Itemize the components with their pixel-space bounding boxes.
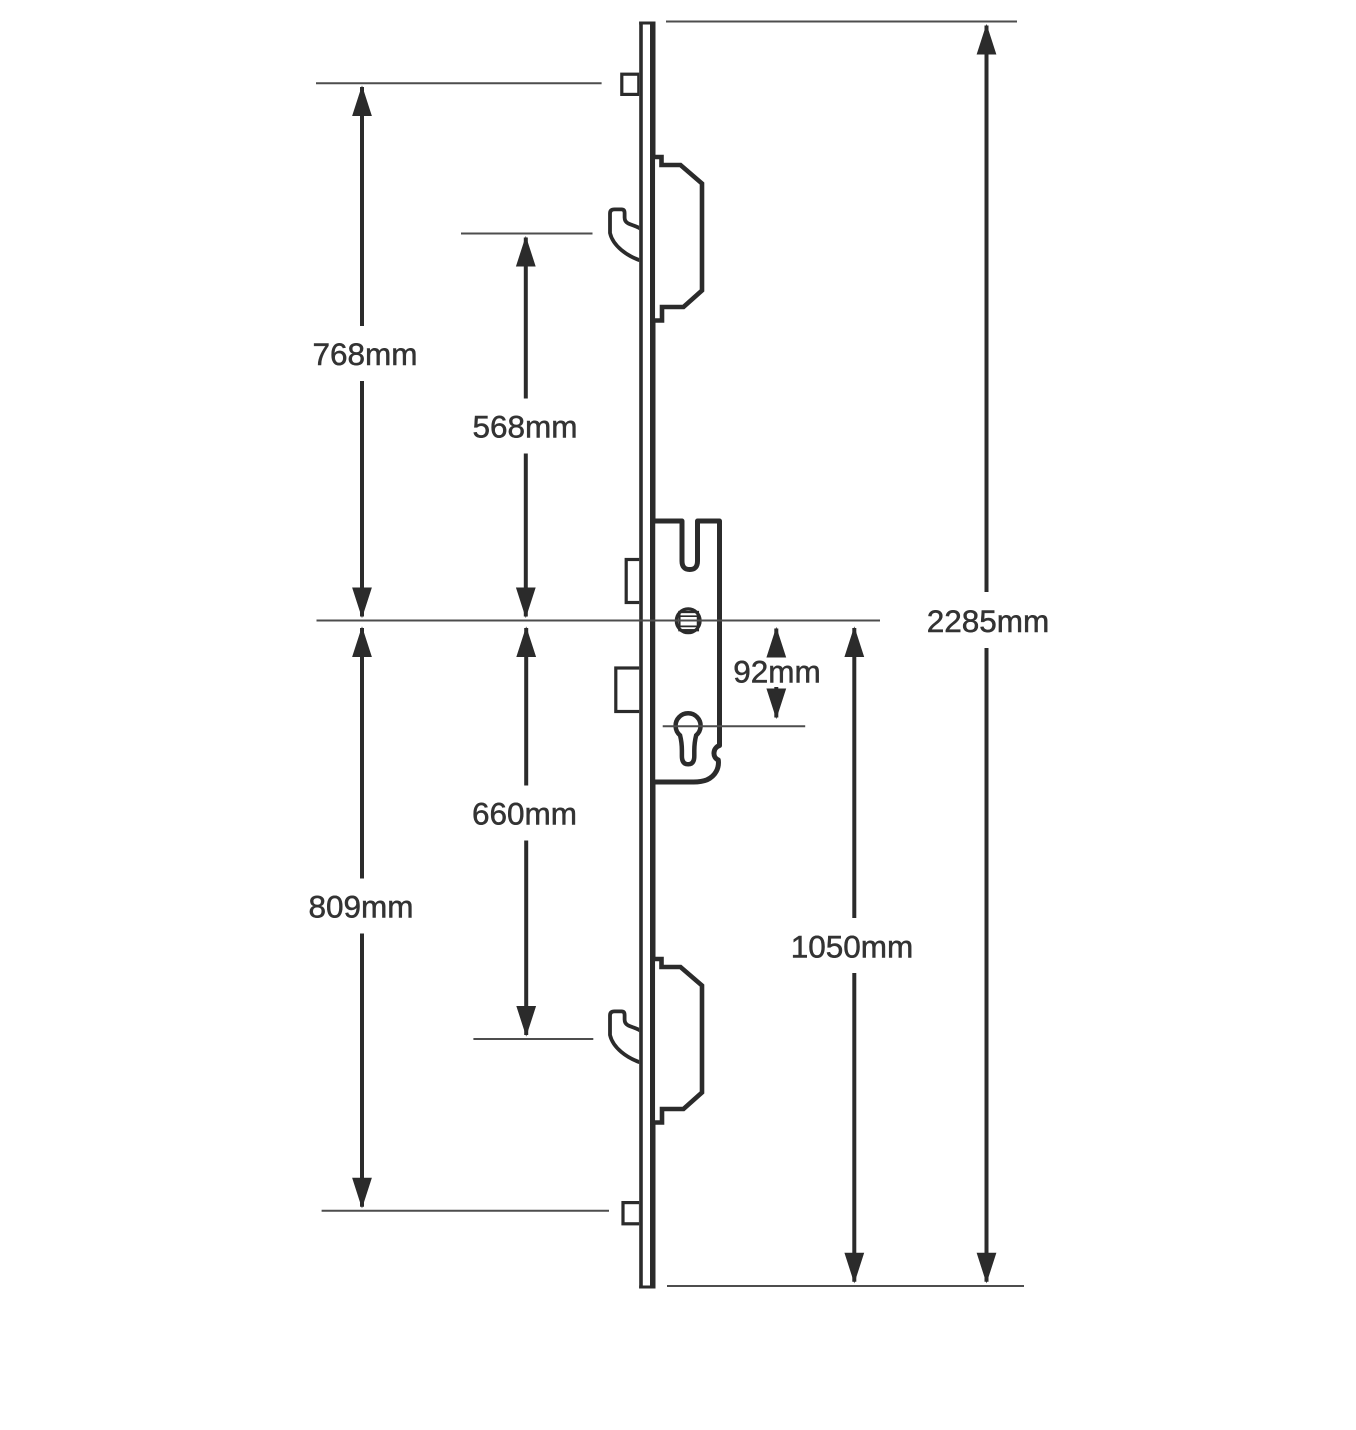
faceplate left edge bbox=[639, 22, 643, 1289]
svg-text:768mm: 768mm bbox=[312, 336, 417, 372]
euro cylinder keyhole bbox=[676, 713, 701, 764]
bottom roller cam square bbox=[623, 1203, 641, 1224]
top roller cam square bbox=[622, 74, 639, 94]
bottom extent line bbox=[667, 1285, 1024, 1287]
bottom hook case bbox=[653, 959, 702, 1123]
faceplate strip bbox=[639, 22, 655, 1289]
spindle follower bbox=[676, 609, 700, 633]
gearbox case bbox=[653, 521, 720, 782]
centre extent line bbox=[317, 620, 881, 622]
dim 92mm arrow bbox=[767, 629, 785, 718]
faceplate right edge bbox=[650, 22, 656, 1289]
dim 768mm arrow bbox=[353, 87, 371, 617]
660 bottom tick bbox=[473, 1038, 593, 1040]
dim 660mm arrow bbox=[517, 628, 535, 1035]
dim 1050mm arrow bbox=[845, 628, 863, 1282]
dim 568mm arrow bbox=[517, 238, 535, 617]
dim 809mm arrow bbox=[353, 628, 371, 1207]
svg-text:1050mm: 1050mm bbox=[791, 929, 914, 965]
svg-text:2285mm: 2285mm bbox=[927, 603, 1050, 639]
gearbox deadbolt block upper bbox=[626, 560, 642, 603]
92 bottom tick bbox=[663, 725, 806, 727]
svg-text:660mm: 660mm bbox=[472, 796, 577, 832]
top extent line bbox=[666, 21, 1017, 23]
svg-text:809mm: 809mm bbox=[308, 889, 413, 925]
568 top tick bbox=[461, 233, 593, 235]
768 top tick bbox=[316, 82, 602, 84]
svg-text:92mm: 92mm bbox=[733, 654, 821, 690]
faceplate top cap bbox=[639, 22, 655, 25]
top hook case bbox=[653, 157, 702, 321]
faceplate bottom cap bbox=[639, 1286, 655, 1289]
bottom hook bolt bbox=[610, 1011, 641, 1062]
gearbox latch block lower bbox=[616, 668, 642, 712]
top hook bolt bbox=[610, 209, 641, 260]
svg-text:568mm: 568mm bbox=[472, 409, 577, 445]
dim 2285mm arrow bbox=[977, 26, 995, 1282]
809 bottom tick bbox=[322, 1210, 609, 1212]
